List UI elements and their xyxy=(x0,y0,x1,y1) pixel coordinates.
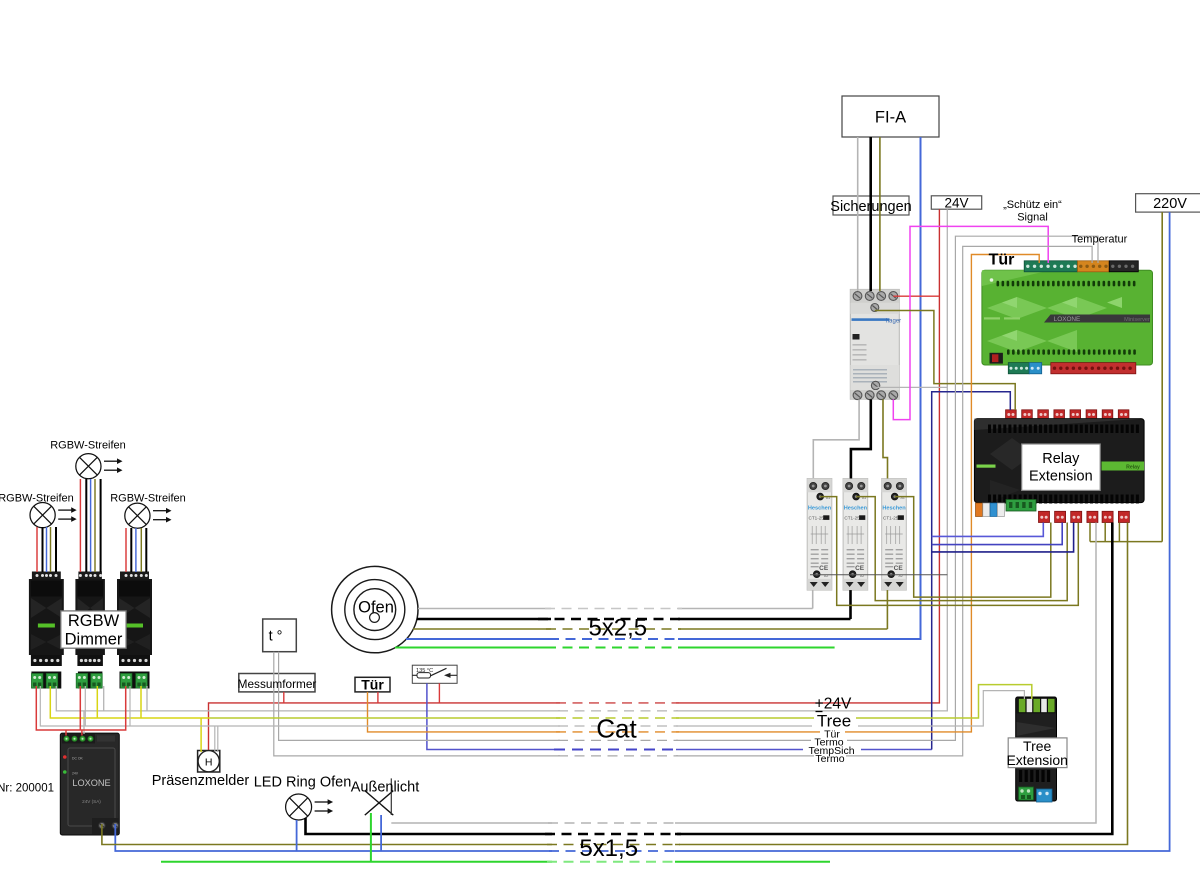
svg-text:CE: CE xyxy=(894,565,904,572)
svg-text:24V (SA): 24V (SA) xyxy=(82,799,101,804)
svg-text:CT1-25: CT1-25 xyxy=(809,516,825,521)
svg-text:LED Ring Ofen: LED Ring Ofen xyxy=(254,775,352,791)
svg-text:5x1,5: 5x1,5 xyxy=(579,835,638,862)
svg-text:Signal: Signal xyxy=(1017,212,1048,224)
svg-text:CT1-25: CT1-25 xyxy=(844,516,860,521)
svg-text:hager: hager xyxy=(886,319,901,325)
svg-text:DC OK: DC OK xyxy=(72,757,83,761)
svg-text:CE: CE xyxy=(855,565,865,572)
svg-text:Dimmer: Dimmer xyxy=(65,631,123,649)
svg-text:RGBW-Streifen: RGBW-Streifen xyxy=(50,440,126,452)
svg-text:„Schütz ein“: „Schütz ein“ xyxy=(1003,199,1062,211)
svg-text:Sicherungen: Sicherungen xyxy=(830,199,911,215)
svg-text:24V: 24V xyxy=(944,196,968,211)
svg-text:LOXONE: LOXONE xyxy=(1054,316,1081,323)
svg-text:l-Nr: 200001: l-Nr: 200001 xyxy=(0,783,54,795)
svg-text:t °: t ° xyxy=(269,629,283,645)
svg-text:Ofen: Ofen xyxy=(358,599,394,617)
svg-text:Heschen: Heschen xyxy=(808,506,832,512)
svg-text:Außenlicht: Außenlicht xyxy=(351,780,420,796)
svg-text:Tür: Tür xyxy=(361,676,384,692)
svg-text:RGBW-Streifen: RGBW-Streifen xyxy=(0,493,74,505)
svg-text:RGBW: RGBW xyxy=(68,612,120,630)
svg-text:Cat: Cat xyxy=(596,714,637,744)
svg-text:Miniserver: Miniserver xyxy=(1124,317,1150,323)
svg-text:Heschen: Heschen xyxy=(844,506,868,512)
svg-text:CT1-25: CT1-25 xyxy=(883,516,899,521)
svg-text:+24V: +24V xyxy=(815,696,852,713)
svg-text:220V: 220V xyxy=(1153,196,1187,212)
svg-text:Relay: Relay xyxy=(1042,451,1080,467)
svg-text:RGBW-Streifen: RGBW-Streifen xyxy=(110,493,186,505)
svg-text:Extension: Extension xyxy=(1029,469,1093,485)
svg-text:Relay: Relay xyxy=(1126,465,1140,471)
svg-text:FI-A: FI-A xyxy=(875,109,906,127)
svg-text:CE: CE xyxy=(819,565,829,572)
svg-text:5x2,5: 5x2,5 xyxy=(588,615,647,642)
svg-text:Präsenzmelder: Präsenzmelder xyxy=(152,773,250,789)
svg-text:Heschen: Heschen xyxy=(882,506,906,512)
svg-text:Temperatur: Temperatur xyxy=(1072,234,1128,246)
svg-text:Messumformer: Messumformer xyxy=(238,677,317,691)
svg-text:Termo: Termo xyxy=(815,753,844,765)
svg-text:Tür: Tür xyxy=(989,252,1015,269)
svg-text:LOXONE: LOXONE xyxy=(72,778,110,788)
svg-text:Extension: Extension xyxy=(1006,752,1067,768)
svg-text:H: H xyxy=(205,756,213,768)
svg-text:24V: 24V xyxy=(72,772,79,776)
